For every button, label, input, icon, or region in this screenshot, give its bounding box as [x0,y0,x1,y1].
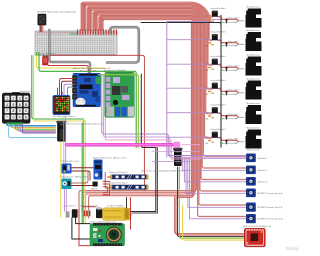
svg-text:relay w/Rectifier 1: relay w/Rectifier 1 [211,104,228,107]
svg-text:Servo cable 1: Servo cable 1 [228,89,239,91]
svg-text:relay w/Rectifier 1: relay w/Rectifier 1 [211,31,228,34]
svg-text:3: 3 [19,97,21,101]
svg-text:Vibration 2: Vibration 2 [258,169,268,172]
svg-text:Standard servo: Standard servo [246,53,260,56]
svg-text:8: 8 [12,109,14,113]
svg-text:fritzing: fritzing [286,246,299,251]
svg-text:Standard servo: Standard servo [246,126,260,129]
svg-text:Keypad 4x4: Keypad 4x4 [20,91,31,93]
svg-text:IRF520: IRF520 [91,189,98,191]
svg-text:LED Matrix 8x8 JY-Mcu 3: LED Matrix 8x8 JY-Mcu 3 [53,115,77,118]
svg-text:Standard servo: Standard servo [246,29,260,32]
svg-text:D: D [25,116,28,120]
svg-text:Standard servo: Standard servo [246,6,260,9]
svg-text:Servo cable 1: Servo cable 1 [228,41,239,43]
svg-text:1N4: 1N4 [205,45,208,47]
svg-text:1N4: 1N4 [205,70,208,72]
svg-text:1: 1 [6,97,8,101]
svg-text:0: 0 [12,116,14,120]
svg-text:L Mot Driver 1: L Mot Driver 1 [64,204,77,207]
svg-text:2: 2 [12,97,14,101]
svg-text:Servo cable 1: Servo cable 1 [228,17,239,19]
svg-text:MOSFET for water flow (v.2): MOSFET for water flow (v.2) [258,206,283,209]
svg-text:#: # [19,116,21,120]
svg-text:relay w/Rectifier 1: relay w/Rectifier 1 [211,128,228,131]
svg-text:Neopixel LED Strip 2: Neopixel LED Strip 2 [109,182,128,185]
svg-text:Micro Servo Tower-SG90 (Dispen: Micro Servo Tower-SG90 (Dispense 1) [68,123,104,126]
svg-text:RTC DS1307 (v1.1): RTC DS1307 (v1.1) [61,161,80,163]
svg-text:relay w/Rectifier 1: relay w/Rectifier 1 [211,7,228,10]
svg-text:Micro servo 6: Micro servo 6 [247,150,260,152]
svg-text:Standard servo: Standard servo [246,102,260,105]
svg-text:1N4: 1N4 [205,143,208,145]
svg-text:relay w/Rectifier 1: relay w/Rectifier 1 [211,79,228,82]
svg-text:Servo cable 1: Servo cable 1 [228,138,239,140]
svg-text:6: 6 [19,103,21,107]
svg-text:1N4: 1N4 [205,22,208,24]
svg-text:Adafruit Motor Driver / Amp (v: Adafruit Motor Driver / Amp (v 1.0 b) [93,156,127,159]
svg-text:Servo cable 1: Servo cable 1 [228,65,239,67]
svg-text:MG-996R High Torque Servo (Bas: MG-996R High Torque Servo (Basket) B [37,10,77,13]
svg-text:RFID-RC522 (13.56 MHz) (v2): RFID-RC522 (13.56 MHz) (v2) [243,226,271,228]
svg-text:Vibration 1: Vibration 1 [258,157,268,160]
svg-text:C: C [25,109,28,113]
svg-text:TT Motor 200RPM: TT Motor 200RPM [107,204,124,207]
svg-text:Raspberry Pi 4 Model B: Raspberry Pi 4 Model B [104,69,127,72]
svg-text:Standard servo: Standard servo [246,77,260,80]
svg-text:7: 7 [6,109,8,113]
svg-text:Piezo Buzzer / DfPlayer Mini: Piezo Buzzer / DfPlayer Mini [61,175,88,178]
svg-text:relay w/Rectifier 1: relay w/Rectifier 1 [211,55,228,58]
svg-text:1N4: 1N4 [205,118,208,120]
svg-text:Neopixel LED Strip 1: Neopixel LED Strip 1 [109,171,128,174]
svg-text:4: 4 [6,103,8,107]
svg-text:5: 5 [12,103,14,107]
svg-text:Servo cable 1: Servo cable 1 [228,114,239,116]
svg-text:MOSFET for water flow (v.3): MOSFET for water flow (v.3) [258,218,283,221]
svg-text:Micro servo with testing (flag: Micro servo with testing (flag for RFID … [142,169,186,172]
svg-text:MOSFET for water flow (v.1): MOSFET for water flow (v.1) [258,192,283,195]
svg-text:Arduino Uno (R3): Arduino Uno (R3) [80,70,96,73]
svg-text:Vibration 3: Vibration 3 [258,181,268,184]
svg-text:9: 9 [19,109,21,113]
svg-text:1N4: 1N4 [205,94,208,96]
